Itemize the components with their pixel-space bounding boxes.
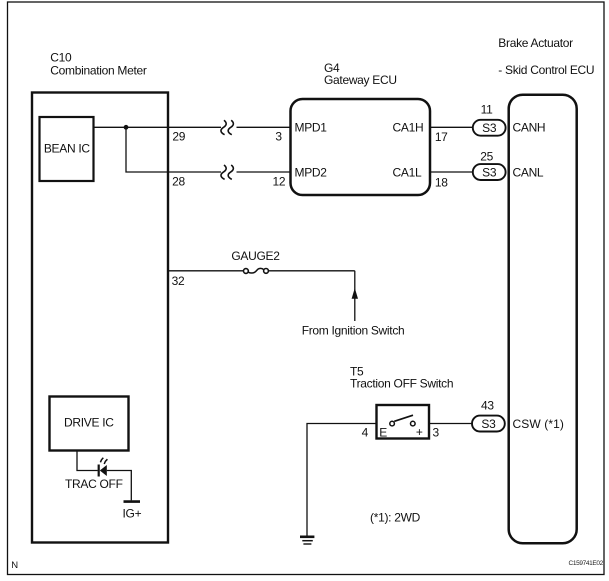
svg-text:From Ignition Switch: From Ignition Switch xyxy=(302,324,405,338)
connector S3 row3 xyxy=(472,416,505,432)
label Brake Actuator - Skid Control ECU xyxy=(498,36,594,77)
svg-text:CANL: CANL xyxy=(513,165,544,179)
svg-text:4: 4 xyxy=(362,425,369,439)
wire ground to switch xyxy=(307,424,377,537)
fuse GAUGE2 xyxy=(244,268,269,273)
wire CA1H to S3 xyxy=(430,126,473,128)
BEAN IC xyxy=(40,117,94,181)
svg-text:+: + xyxy=(416,425,423,439)
wire BEAN IC to MPD1 xyxy=(94,126,291,128)
combination meter C10 box xyxy=(32,93,168,543)
svg-text:17: 17 xyxy=(435,130,448,144)
svg-text:CSW (*1): CSW (*1) xyxy=(513,417,564,431)
wire CA1L to S3 xyxy=(430,171,473,173)
skid control ECU box xyxy=(509,95,577,544)
svg-text:Combination Meter: Combination Meter xyxy=(50,63,147,77)
traction OFF switch T5 box xyxy=(377,405,430,439)
svg-text:IG+: IG+ xyxy=(123,506,142,520)
svg-text:32: 32 xyxy=(172,274,185,288)
svg-text:11: 11 xyxy=(481,103,493,117)
svg-text:3: 3 xyxy=(433,425,440,439)
svg-text:TRAC OFF: TRAC OFF xyxy=(65,477,123,491)
wire switch to S3 row3 xyxy=(429,423,473,425)
svg-text:MPD2: MPD2 xyxy=(295,165,328,179)
svg-text:CA1L: CA1L xyxy=(393,165,422,179)
connector S3 row1 xyxy=(473,120,506,136)
svg-text:S3: S3 xyxy=(481,417,496,431)
label G4 Gateway ECU xyxy=(324,61,397,87)
node junction xyxy=(124,125,129,130)
svg-text:GAUGE2: GAUGE2 xyxy=(231,249,280,263)
svg-text:28: 28 xyxy=(172,175,185,189)
svg-text:18: 18 xyxy=(435,175,448,189)
svg-text:- Skid Control ECU: - Skid Control ECU xyxy=(498,63,594,77)
svg-text:S3: S3 xyxy=(482,121,497,135)
ground xyxy=(300,537,314,544)
connector S3 row2 xyxy=(473,164,506,180)
gateway ECU G4 xyxy=(291,99,431,195)
svg-text:Gateway ECU: Gateway ECU xyxy=(324,73,397,87)
wire break symbol row1 xyxy=(221,120,233,134)
svg-text:29: 29 xyxy=(172,129,185,143)
svg-text:43: 43 xyxy=(481,399,494,413)
label C10 Combination Meter xyxy=(50,51,147,78)
LED TRAC OFF indicator xyxy=(99,458,108,477)
wire DRIVE IC to LED xyxy=(77,451,98,471)
svg-text:Brake Actuator: Brake Actuator xyxy=(498,36,573,50)
svg-text:BEAN IC: BEAN IC xyxy=(44,142,91,156)
svg-text:DRIVE IC: DRIVE IC xyxy=(64,415,114,429)
svg-text:E: E xyxy=(379,425,387,439)
svg-text:C159741E02: C159741E02 xyxy=(569,560,604,567)
svg-text:(*1): 2WD: (*1): 2WD xyxy=(370,511,421,525)
switch contacts xyxy=(390,415,415,426)
svg-text:S3: S3 xyxy=(482,165,497,179)
svg-text:CA1H: CA1H xyxy=(393,121,424,135)
svg-text:N: N xyxy=(11,560,18,571)
arrow from ignition switch xyxy=(352,288,358,299)
label T5 Traction OFF Switch xyxy=(350,365,453,391)
svg-text:Traction OFF Switch: Traction OFF Switch xyxy=(350,377,453,391)
wire break symbol row2 xyxy=(221,165,233,179)
wire junction down to pin28 row xyxy=(126,127,291,172)
svg-text:MPD1: MPD1 xyxy=(295,121,328,135)
svg-text:12: 12 xyxy=(273,175,286,189)
wire LED to IG+ xyxy=(107,471,132,501)
svg-text:CANH: CANH xyxy=(513,121,546,135)
svg-text:3: 3 xyxy=(275,129,282,143)
power IG+ xyxy=(123,502,142,521)
DRIVE IC xyxy=(50,397,129,451)
svg-text:25: 25 xyxy=(480,149,493,163)
wire pin32 GAUGE2 xyxy=(168,271,355,321)
